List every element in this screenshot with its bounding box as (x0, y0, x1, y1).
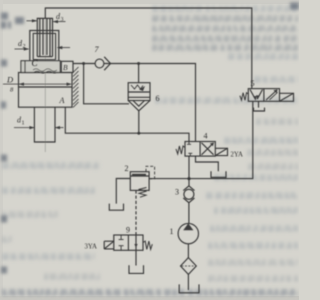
svg-text:C: C (32, 58, 39, 68)
junction dot above valve 6 (137, 62, 140, 65)
svg-text:1: 1 (22, 121, 25, 127)
svg-text:1: 1 (170, 227, 174, 236)
svg-text:3: 3 (61, 17, 64, 23)
telescopic plunger rod (d3) (37, 18, 52, 56)
svg-text:6: 6 (156, 94, 160, 103)
valve 2 wire to main junction (149, 178, 189, 180)
relief valve 6 (128, 83, 150, 101)
mounting hatch strip (73, 67, 79, 108)
wire funnel to A-line (138, 111, 140, 133)
valve 2 drain dashed down to valve 9 (135, 190, 137, 235)
cylinder C lower flange (21, 61, 60, 73)
valve 9 solenoid 3YA (104, 241, 114, 249)
valve 2 pilot dashed loop (146, 166, 155, 179)
unloading valve 9 body (114, 235, 143, 250)
wire from block A bottom to valve 4 (A-line) (65, 107, 189, 141)
pressure valve 2 (130, 172, 149, 191)
valve 5 right box arrow (266, 90, 277, 100)
wire from junction down to relief valve 6 bottom (84, 64, 129, 104)
valve 9 spring (143, 241, 152, 249)
piston block A (19, 87, 73, 107)
dimension d3 arrows (27, 19, 66, 23)
wire from top wire down into valve 6 (138, 64, 140, 83)
check valve 7 (95, 59, 104, 68)
wire valve 5 bottom to junction line (189, 101, 253, 178)
valve 2 outlet to tank at left (116, 179, 130, 204)
valve 4 drain to tank (196, 156, 219, 171)
svg-text:4: 4 (204, 132, 208, 141)
valve 9 left box plugs (119, 235, 124, 240)
directional valve 5 body (248, 89, 279, 102)
suction filter (181, 258, 197, 275)
dimension D line with arrows (3, 83, 72, 86)
pump 1 (178, 223, 198, 243)
svg-text:3: 3 (175, 188, 179, 197)
dimension d2 arrows (15, 46, 71, 51)
valve 2 spring below (139, 188, 147, 198)
valve 9 right box through line with arrow (135, 235, 137, 266)
valve 5 spring (240, 93, 248, 101)
wire from port B to check valve 7 and on to valve 4 (73, 63, 95, 65)
valve 5 drain tank (258, 101, 260, 107)
svg-text:5: 5 (251, 79, 255, 88)
oil wavy lines in flange (33, 69, 57, 72)
valve 5 left box V drain (250, 90, 263, 100)
ram rod (d1) below block A (34, 107, 55, 142)
cylinder C outer barrel (30, 31, 59, 69)
valve 4 spring (176, 146, 185, 154)
svg-text:A: A (59, 96, 65, 105)
cylinder C inner bore (33, 33, 55, 59)
svg-text:2YA: 2YA (231, 152, 244, 159)
svg-text:2: 2 (125, 164, 129, 173)
svg-text:3YA: 3YA (85, 244, 98, 251)
wire from plunger top to valve 5 (top long wire) (45, 8, 252, 89)
valve 9 tank below (129, 265, 144, 273)
junction dot at B wire (82, 62, 85, 65)
valve 4 left box port plugs (187, 142, 191, 145)
main tank (179, 284, 199, 292)
svg-text:D: D (6, 75, 14, 85)
valve 5 solenoid (280, 93, 294, 101)
wire valve4 bottom to main junction (188, 156, 190, 179)
dimension d1 arrows (14, 126, 64, 129)
port block B (61, 61, 73, 72)
svg-text:B: B (63, 63, 68, 72)
valve 4 solenoid (215, 148, 227, 155)
valve 4 right box crossed arrows (202, 143, 214, 155)
svg-text:2: 2 (23, 44, 26, 50)
directional valve 4 body (185, 142, 215, 157)
svg-text:9: 9 (126, 226, 130, 235)
wide guide block (D) (19, 73, 73, 88)
valve 6 funnel to tank (128, 101, 150, 111)
center axis line of cylinder (44, 19, 46, 152)
check valve 3 (184, 189, 194, 199)
